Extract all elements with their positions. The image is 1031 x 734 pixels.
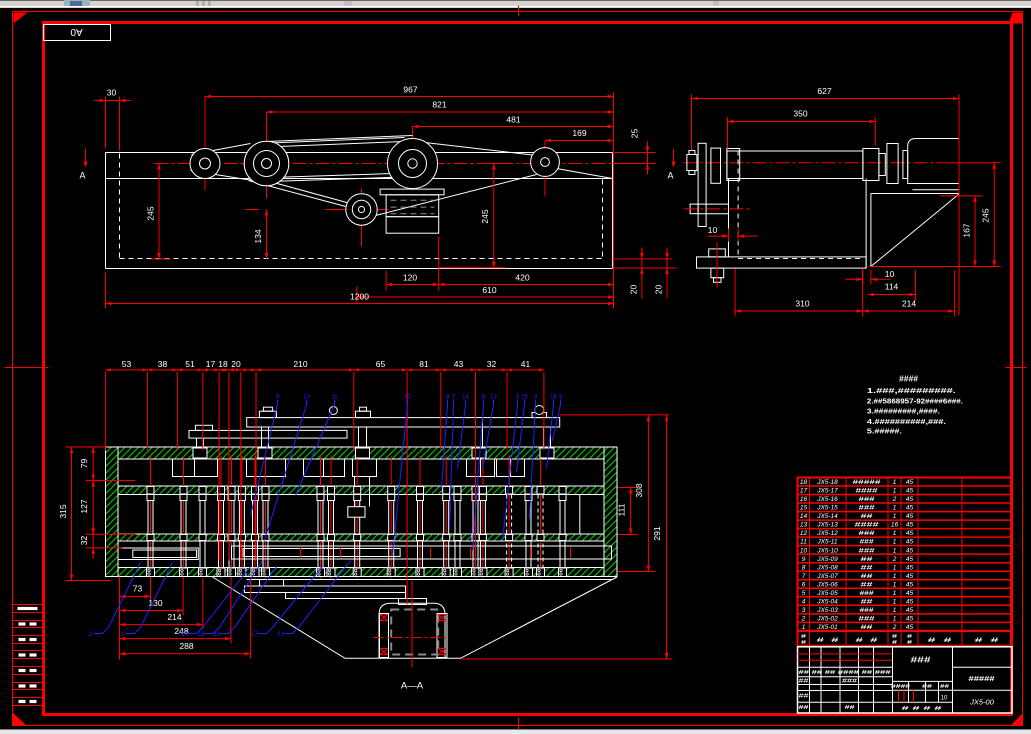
leader line 2 (94, 563, 141, 634)
svg-text:JX5-03: JX5-03 (816, 607, 838, 614)
svg-text:245: 245 (480, 209, 490, 223)
svg-text:7: 7 (802, 573, 806, 580)
motor body right view (908, 139, 959, 184)
leader line 21 (284, 561, 351, 634)
motor mount plate (380, 189, 444, 195)
svg-text:20: 20 (629, 285, 639, 295)
svg-text:14: 14 (800, 513, 808, 520)
leader line 14 (458, 400, 466, 469)
dimension 245 (158, 164, 160, 260)
svg-text:###: ### (859, 496, 876, 503)
leader line 3 (553, 400, 561, 441)
dimension 79 (92, 447, 94, 481)
svg-text:1: 1 (893, 573, 897, 580)
svg-text:45: 45 (906, 522, 914, 529)
section box thin deck hatch (118, 534, 604, 541)
svg-text:5: 5 (802, 590, 806, 597)
pulley P1 centerline (204, 97, 206, 191)
center fixture block (348, 507, 365, 518)
leader line 11 (296, 400, 335, 496)
svg-text:####: #### (856, 488, 879, 495)
left lower arm (698, 203, 728, 205)
section arrow A left (85, 149, 87, 163)
svg-text:14: 14 (462, 395, 469, 401)
leader line 17 (258, 567, 323, 634)
svg-text:A0: A0 (70, 26, 83, 37)
svg-text:21: 21 (277, 632, 284, 638)
dimension 288 (120, 653, 251, 655)
roller shaft centerline (684, 162, 941, 164)
status strip (0, 729, 1031, 734)
svg-text:79: 79 (79, 459, 89, 469)
svg-text:13: 13 (800, 522, 808, 529)
svg-text:9: 9 (802, 556, 806, 563)
dimension 10 left wall (708, 235, 729, 237)
vibrator centerline horizontal (374, 637, 450, 639)
svg-text:##: ## (861, 573, 874, 580)
corner triangle top-right (1009, 13, 1023, 24)
triangle gusset (871, 194, 959, 267)
svg-text:JX5-07: JX5-07 (816, 573, 838, 580)
svg-text:2: 2 (892, 496, 897, 503)
svg-text:41: 41 (521, 359, 531, 369)
svg-text:1: 1 (893, 590, 897, 597)
bolt shafts through box (147, 495, 149, 568)
tensioner centerline horizontal (326, 209, 389, 211)
svg-text:#: # (892, 640, 897, 646)
pulley P2 (244, 141, 289, 186)
svg-text:45: 45 (906, 547, 914, 554)
upper blocks inner lines (194, 459, 196, 477)
svg-text:#####: ##### (853, 479, 882, 486)
svg-text:# #: # # (928, 638, 954, 644)
svg-text:30: 30 (107, 88, 117, 98)
svg-text:3.#########,####.: 3.#########,####. (867, 409, 940, 416)
svg-text:1: 1 (893, 479, 897, 486)
arm centerline (684, 208, 753, 210)
svg-text:JX5-17: JX5-17 (816, 488, 838, 495)
svg-text:# #: # # (856, 638, 879, 644)
svg-text:16: 16 (891, 522, 899, 529)
svg-text:##: ## (861, 556, 874, 563)
pulley P1 (190, 149, 220, 179)
vibrator hidden body (391, 610, 438, 655)
right flange small (879, 154, 885, 176)
svg-text:10: 10 (885, 269, 895, 279)
lower bar right (232, 546, 612, 559)
svg-text:1: 1 (893, 564, 897, 571)
svg-text:# #: # # (817, 638, 840, 644)
svg-text:45: 45 (906, 539, 914, 546)
svg-text:310: 310 (795, 299, 809, 309)
motor foot lines (916, 183, 960, 185)
right flange large (887, 144, 898, 184)
anchor bolt nut (709, 249, 726, 257)
section box right wall hatch (604, 447, 617, 577)
svg-text:1.###,#########.: 1.###,#########. (867, 388, 956, 395)
centering tick bottom (518, 718, 520, 730)
leader line 1 (126, 563, 173, 634)
svg-text:45: 45 (906, 530, 914, 537)
pulley P3 (388, 139, 438, 189)
svg-text:2.##5868957-92####6###.: 2.##5868957-92####6###. (867, 398, 963, 405)
svg-text:A: A (79, 171, 85, 181)
bottom extension lines (119, 577, 121, 660)
svg-text:11: 11 (800, 539, 807, 546)
hopper rim line (247, 579, 612, 581)
svg-text:JX5-09: JX5-09 (816, 556, 838, 563)
dimension 245 (993, 163, 995, 267)
dimension 308 (647, 415, 649, 572)
svg-text:481: 481 (506, 115, 520, 125)
belt bottom run P3-P2 (269, 177, 421, 182)
svg-text:45: 45 (906, 496, 914, 503)
svg-text:###: ### (859, 615, 876, 622)
svg-text:45: 45 (906, 488, 914, 495)
svg-text:127: 127 (79, 499, 89, 513)
dimension 248 (120, 638, 231, 640)
motor body (386, 195, 439, 217)
svg-text:1: 1 (893, 513, 897, 520)
svg-text:###: ### (860, 539, 874, 546)
dimension 10 wall (862, 268, 864, 284)
dimension 130 (120, 610, 184, 612)
svg-text:288: 288 (179, 641, 193, 651)
bar hanger stems (196, 438, 198, 447)
svg-text:73: 73 (133, 584, 143, 594)
belt top run P2-P3 (259, 138, 405, 144)
solid divider (579, 495, 581, 535)
svg-text:####: #### (899, 374, 918, 384)
leader line 7 (450, 400, 454, 529)
svg-text:5.#####.: 5.#####. (867, 428, 902, 435)
lower bar left (118, 548, 198, 560)
dimension 350 (728, 121, 876, 123)
svg-text:134: 134 (253, 229, 263, 243)
svg-text:16: 16 (800, 496, 808, 503)
belt run tensioner-P4 (372, 175, 537, 217)
vibrator centerline vertical (411, 581, 413, 668)
bottom band nuts (147, 568, 155, 577)
svg-text:65: 65 (376, 359, 386, 369)
svg-text:18: 18 (218, 359, 228, 369)
svg-text:45: 45 (906, 607, 914, 614)
svg-text:420: 420 (515, 273, 529, 283)
motor base block (386, 217, 439, 234)
svg-text:15: 15 (521, 395, 528, 401)
tank right wall right view (865, 179, 867, 269)
svg-text:6: 6 (802, 581, 806, 588)
dimension 20 (641, 259, 643, 268)
svg-text:45: 45 (906, 590, 914, 597)
svg-text:A: A (667, 171, 673, 181)
dimension 315 (71, 447, 73, 581)
svg-text:JX5-06: JX5-06 (816, 581, 838, 588)
svg-text:210: 210 (293, 359, 307, 369)
base plate right view (697, 257, 867, 268)
vibrator mount block (260, 580, 284, 587)
svg-text:25: 25 (630, 129, 640, 139)
svg-text:11: 11 (331, 395, 338, 401)
dimension 120 (386, 284, 439, 286)
dimension 114 (868, 294, 916, 296)
right extension lines (941, 162, 1001, 164)
svg-text:#####: ##### (969, 674, 996, 683)
svg-text:JX5-05: JX5-05 (816, 590, 838, 597)
dimension 134 (266, 210, 268, 260)
center bolt stem (354, 477, 356, 507)
left short bar (189, 430, 347, 438)
left bearing bracket plate (698, 143, 706, 226)
vibrator mount plates (245, 586, 406, 593)
svg-text:4.##########,###.: 4.##########,###. (867, 419, 946, 426)
dimension 481 (413, 126, 614, 128)
svg-text:JX5-16: JX5-16 (816, 496, 838, 503)
svg-text:51: 51 (185, 359, 195, 369)
dimension 111 (630, 488, 632, 535)
tensioner centerline vertical (361, 189, 363, 247)
svg-text:2: 2 (892, 556, 897, 563)
svg-text:45: 45 (906, 513, 914, 520)
svg-text:13: 13 (490, 395, 497, 401)
svg-text:##: ## (861, 564, 874, 571)
dimension 1200 (106, 303, 615, 305)
svg-text:315: 315 (58, 504, 68, 518)
svg-text:1: 1 (893, 488, 897, 495)
section box bottom wall hatch (106, 568, 618, 577)
svg-text:JX5-10: JX5-10 (816, 547, 838, 554)
leader line 5 (503, 400, 518, 541)
svg-text:350: 350 (793, 109, 807, 119)
dimension 627 (692, 98, 960, 100)
svg-text:JX5-13: JX5-13 (816, 522, 838, 529)
svg-text:45: 45 (906, 564, 914, 571)
svg-text:38: 38 (158, 359, 168, 369)
svg-text:####: #### (891, 684, 910, 690)
svg-text:1: 1 (893, 598, 897, 605)
dimension 821 (267, 111, 614, 113)
vibrator dome (379, 603, 445, 658)
centering tick left (5, 367, 49, 369)
tank outline side view (106, 152, 613, 154)
svg-text:JX5-15: JX5-15 (816, 505, 838, 512)
svg-text:610: 610 (482, 285, 496, 295)
svg-text:JX5-18: JX5-18 (816, 479, 838, 486)
main shaft centerline (155, 163, 633, 165)
tank dashed wall right view (737, 151, 739, 257)
tank dashed inner wall (119, 154, 121, 259)
svg-text:17: 17 (251, 632, 258, 638)
svg-text:245: 245 (981, 208, 991, 222)
svg-text:53: 53 (122, 359, 132, 369)
svg-text:45: 45 (906, 505, 914, 512)
svg-text:214: 214 (902, 299, 916, 309)
svg-text:#: # (801, 640, 806, 646)
svg-text:###: ### (859, 547, 876, 554)
chain extension lines (105, 372, 107, 451)
left washer flange (711, 148, 721, 183)
BOM header row (798, 631, 1013, 646)
svg-text:10: 10 (800, 547, 808, 554)
svg-text:###: ### (859, 505, 876, 512)
corner triangle top-left (14, 13, 28, 24)
bolt collars below shelf (147, 495, 154, 501)
leader line 10 (265, 400, 307, 541)
dimension 73 (120, 595, 151, 597)
centering tick right (1006, 367, 1027, 369)
svg-text:1: 1 (893, 607, 897, 614)
svg-text:19: 19 (181, 632, 188, 638)
svg-text:1: 1 (893, 547, 897, 554)
svg-text:245: 245 (146, 206, 156, 220)
svg-text:12: 12 (404, 395, 411, 401)
svg-text:12: 12 (800, 530, 808, 537)
svg-text:20: 20 (231, 359, 241, 369)
dimension 420 (439, 284, 614, 286)
svg-text:###: ### (860, 590, 874, 597)
section top dim chain line (106, 369, 544, 371)
upper long bar bolt bumps (259, 411, 276, 417)
svg-text:15: 15 (800, 505, 808, 512)
anchor bolt head (711, 268, 724, 278)
dimension 169 (545, 140, 614, 142)
svg-text:16: 16 (550, 395, 557, 401)
dimension 610 (357, 296, 614, 298)
centering tick top (518, 6, 520, 17)
leader line 20 (220, 567, 277, 634)
tank left wall right view (728, 179, 730, 257)
svg-text:45: 45 (906, 573, 914, 580)
corner triangle bottom-right (1011, 714, 1023, 726)
svg-text:111: 111 (617, 503, 627, 516)
belt around P1 (192, 144, 251, 155)
dimension 310 (735, 310, 863, 312)
anchor bolt centerline (716, 242, 718, 287)
leader line 12 (393, 400, 408, 556)
svg-text:120: 120 (403, 273, 417, 283)
svg-text:45: 45 (906, 581, 914, 588)
vibrator bearing marks (380, 615, 388, 621)
svg-text:45: 45 (906, 479, 914, 486)
dimension 30 (106, 100, 120, 102)
hopper outline (213, 577, 618, 658)
svg-text:###: ### (860, 607, 874, 614)
dimension 214 (120, 624, 203, 626)
svg-text:A—A: A—A (401, 681, 424, 692)
upper bearing blocks (173, 459, 218, 477)
svg-text:10: 10 (303, 395, 310, 401)
leader line 13 (483, 400, 494, 469)
svg-text:##: ## (799, 705, 809, 711)
leader line 16 (547, 400, 554, 469)
svg-text:1: 1 (893, 530, 897, 537)
svg-text:821: 821 (432, 100, 446, 110)
svg-text:##: ## (799, 694, 809, 700)
svg-text:18: 18 (198, 632, 205, 638)
leader line 19 (188, 567, 251, 634)
svg-text:1: 1 (893, 539, 897, 546)
bolt centerlines red (150, 456, 152, 579)
svg-text:10: 10 (941, 696, 948, 702)
svg-text:308: 308 (634, 483, 644, 497)
svg-text:1: 1 (893, 581, 897, 588)
right extension line (613, 93, 615, 309)
dimension 32 (92, 534, 94, 548)
section box left wall hatch (106, 447, 119, 577)
svg-text:##: ## (861, 598, 874, 605)
svg-text:8: 8 (802, 564, 806, 571)
toolbar strip (0, 0, 1031, 8)
svg-text:JX5-02: JX5-02 (816, 615, 838, 622)
svg-text:###: ### (842, 678, 857, 684)
svg-text:17: 17 (800, 488, 808, 495)
svg-text:##: ## (845, 705, 855, 711)
roller drum (727, 151, 863, 179)
dimension 245 (493, 164, 495, 268)
svg-text:1200: 1200 (350, 292, 369, 302)
corner triangle bottom-left (13, 713, 27, 726)
dimension 127 (92, 481, 94, 535)
belt run P3-P4 top (421, 142, 537, 156)
svg-text:17: 17 (206, 359, 216, 369)
arm bolt (690, 204, 698, 214)
svg-text:JX5-08: JX5-08 (816, 564, 838, 571)
svg-text:1: 1 (893, 615, 897, 622)
leader line 4 (530, 400, 536, 519)
band spacer blocks (193, 448, 207, 458)
svg-text:# #: # # (975, 638, 1001, 644)
svg-text:## ## ## #### ## ###: ## ## ## #### ## ### (799, 670, 891, 676)
belt run P2-tensioner (252, 177, 351, 204)
tensioner pulley P5 (346, 194, 377, 225)
svg-text:43: 43 (454, 359, 464, 369)
svg-text:291: 291 (652, 526, 662, 540)
extension lines bottoms (613, 258, 673, 260)
dimension 167 (974, 196, 976, 267)
svg-text:##: ## (861, 581, 874, 588)
svg-text:627: 627 (817, 86, 831, 96)
svg-text:JX5-04: JX5-04 (816, 598, 838, 605)
svg-text:2: 2 (801, 615, 806, 622)
svg-text:32: 32 (487, 359, 497, 369)
right flange hub (903, 151, 908, 179)
svg-text:####: #### (855, 522, 880, 529)
svg-text:1: 1 (893, 505, 897, 512)
section box mid shelf hatch (118, 486, 604, 495)
section arrow A right (673, 149, 675, 163)
leader line 6 (473, 400, 484, 551)
lower bar red ticks (300, 548, 302, 559)
pulley P4 centerline (544, 141, 546, 197)
svg-text:169: 169 (572, 128, 586, 138)
title block (798, 647, 1013, 713)
dimension 214 (863, 310, 955, 312)
roller left cap (727, 149, 740, 181)
dimension 291 (666, 415, 668, 659)
leader line 9 (251, 400, 278, 516)
svg-text:JX5-11: JX5-11 (816, 539, 837, 546)
leader line 18 (205, 561, 263, 634)
svg-text:20: 20 (213, 632, 220, 638)
right side extensions (560, 414, 669, 416)
svg-text:JX5-14: JX5-14 (816, 513, 838, 520)
belt slack loop upper (267, 136, 413, 142)
svg-text:# # # #: # # # # (902, 706, 942, 712)
roller right cap (863, 149, 879, 181)
section box top wall hatch (106, 447, 618, 459)
svg-text:18: 18 (800, 479, 808, 486)
svg-text:##: ## (861, 513, 874, 520)
